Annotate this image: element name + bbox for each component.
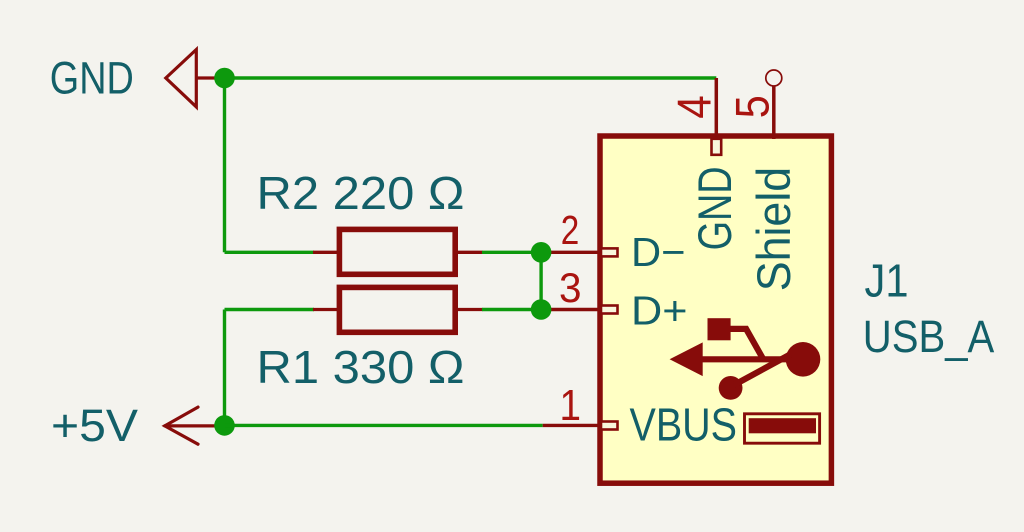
svg-text:2: 2	[561, 207, 580, 253]
svg-text:Shield: Shield	[747, 167, 800, 292]
USB receptacle bar	[749, 418, 816, 433]
pin 5 line	[772, 86, 776, 139]
resistor R1 pin left	[313, 308, 339, 311]
svg-text:VBUS: VBUS	[630, 399, 738, 451]
pin 4 notch	[712, 139, 722, 155]
junction D-	[531, 242, 552, 263]
USB icon upper branch	[722, 329, 764, 360]
wire R2 to junction	[482, 251, 545, 254]
svg-text:USB_A: USB_A	[863, 311, 995, 362]
pin 1 notch	[601, 422, 618, 430]
USB receptacle outline	[745, 414, 820, 443]
svg-text:R2 220 Ω: R2 220 Ω	[257, 167, 465, 219]
resistor R1 pin right	[455, 308, 483, 311]
wire to R2 left	[225, 251, 315, 254]
wire GND vertical to R2	[223, 78, 226, 252]
pin 3 notch	[601, 306, 618, 314]
pin 5 open circle	[766, 70, 782, 86]
svg-text:D−: D−	[631, 229, 686, 275]
svg-text:R1 330 Ω: R1 330 Ω	[257, 341, 465, 393]
junction D+	[531, 299, 552, 320]
USB icon square	[708, 318, 731, 340]
USB icon arrow triangle	[670, 342, 703, 376]
USB icon main line	[700, 356, 795, 362]
USB icon small circle	[719, 376, 743, 400]
connector J1 body	[600, 136, 831, 483]
resistor R2 pin left	[313, 251, 339, 254]
pin 3 line	[545, 308, 600, 311]
USB icon lower branch	[734, 354, 791, 385]
resistor R2 pin right	[455, 251, 483, 254]
power symbol +5V (open arrow)	[165, 407, 215, 444]
wire R1 to junction	[482, 308, 545, 311]
svg-text:5: 5	[726, 95, 779, 118]
pin 4 line	[715, 78, 719, 139]
junction GND	[214, 68, 235, 89]
svg-text:GND: GND	[50, 53, 134, 104]
svg-text:J1: J1	[865, 254, 909, 306]
power symbol GND (arrow)	[166, 50, 215, 107]
wire to R1 left	[225, 308, 315, 311]
svg-text:1: 1	[560, 381, 582, 430]
resistor R2 body	[339, 229, 455, 274]
svg-text:4: 4	[668, 95, 721, 119]
wire +5V to VBUS	[225, 424, 543, 427]
svg-text:GND: GND	[688, 166, 741, 250]
wire junction vertical 2-3	[539, 252, 542, 309]
svg-text:+5V: +5V	[51, 400, 139, 451]
junction +5V	[214, 415, 235, 436]
pin 1 line	[543, 424, 600, 427]
resistor R1 body	[339, 287, 455, 332]
wire GND horizontal	[225, 76, 717, 79]
wire R1 vertical to +5V	[223, 310, 226, 426]
USB icon big circle	[786, 342, 821, 377]
pin 2 line	[545, 251, 600, 254]
pin 2 notch	[601, 248, 618, 256]
svg-text:D+: D+	[631, 287, 688, 333]
svg-text:3: 3	[559, 264, 582, 311]
